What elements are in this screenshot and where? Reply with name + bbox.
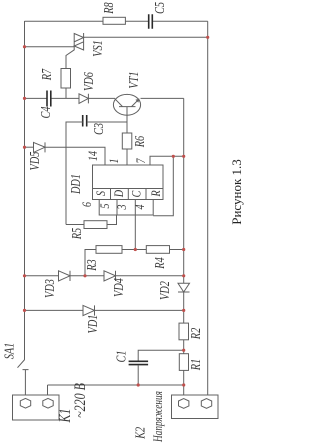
svg-text:C: C (129, 190, 144, 197)
svg-text:R3: R3 (84, 259, 100, 271)
svg-text:Напряжения: Напряжения (152, 391, 165, 443)
svg-text:R1: R1 (188, 359, 204, 371)
wire R1 down (183, 370, 185, 395)
capacitor C3 (83, 115, 87, 127)
resistor R3 (96, 246, 122, 254)
svg-text:C1: C1 (113, 350, 129, 362)
wire left rail (24, 21, 26, 360)
resistor R2 (179, 323, 189, 340)
svg-text:DD1: DD1 (68, 174, 84, 195)
wire VT1 base (126, 115, 128, 133)
capacitor C4 (47, 91, 51, 107)
svg-text:R5: R5 (69, 228, 85, 240)
svg-text:R: R (149, 190, 164, 197)
wire top rail (25, 20, 104, 22)
svg-text:C5: C5 (152, 2, 168, 14)
wire VD4 right (116, 275, 184, 277)
resistor R6 (122, 133, 132, 149)
transistor VT1 (113, 94, 140, 115)
svg-text:R4: R4 (152, 257, 168, 269)
svg-text:VD3: VD3 (42, 279, 58, 298)
wire R4 right (170, 249, 184, 251)
wire R5 left (66, 224, 84, 226)
svg-text:VD4: VD4 (111, 278, 127, 297)
wire VD3 to VD4 (70, 275, 104, 277)
triac VS1 (74, 33, 83, 50)
svg-text:К2: К2 (132, 427, 148, 440)
svg-text:6: 6 (80, 202, 95, 207)
svg-text:3: 3 (115, 204, 130, 210)
svg-text:7: 7 (134, 157, 149, 163)
wire pin7 (150, 156, 184, 165)
wire C3 right (87, 121, 127, 123)
wire VS1 right (84, 36, 208, 38)
switch SA1 (18, 360, 29, 396)
diode VD1 (83, 305, 95, 315)
wire VS1 gate (66, 50, 75, 69)
resistor R5 (84, 221, 107, 229)
svg-text:R8: R8 (101, 2, 117, 14)
connector K2 (172, 395, 219, 419)
svg-text:C3: C3 (91, 123, 107, 135)
wire C1 top (138, 350, 184, 361)
svg-text:5: 5 (98, 203, 113, 208)
wire K1 t2 up (47, 385, 49, 395)
wire R2 to R1 (183, 340, 185, 354)
wire mid rail (183, 98, 185, 283)
svg-text:R6: R6 (132, 136, 148, 148)
wire bottom net (48, 384, 184, 386)
wire pin1 (126, 149, 128, 165)
svg-text:SA1: SA1 (1, 343, 17, 360)
wire right rail (207, 21, 209, 395)
svg-text:~220 В: ~220 В (73, 383, 90, 418)
wire C5 to right rail (153, 20, 208, 22)
wire pinR to pin7 net (153, 156, 173, 216)
wire R8 to C5 (125, 20, 148, 22)
svg-text:4: 4 (133, 204, 148, 209)
resistor R8 (103, 17, 125, 24)
wire R7 to node (65, 88, 67, 98)
diode VD4 (104, 271, 116, 281)
wire VD1 net (25, 309, 84, 311)
wire R3 to R4 (122, 249, 146, 251)
wire C1 down (137, 365, 139, 385)
capacitor C5 (149, 14, 153, 29)
resistor R1 (179, 354, 188, 371)
wire VD5 net (25, 146, 34, 148)
svg-text:S: S (94, 191, 109, 196)
diode VD2 (178, 283, 190, 292)
svg-text:Рисунок 1.3: Рисунок 1.3 (229, 159, 244, 225)
capacitor C1 (129, 361, 149, 364)
svg-text:VD1: VD1 (85, 315, 101, 334)
svg-text:1: 1 (107, 159, 122, 164)
svg-text:VD6: VD6 (81, 72, 97, 91)
wire VD6 to VT1 (88, 97, 115, 99)
wire VD2 down (183, 292, 185, 323)
wire VD3 net (25, 275, 59, 277)
wire C4 to VD6 (52, 97, 80, 99)
svg-text:D: D (112, 189, 127, 198)
resistor R4 (146, 246, 169, 254)
wire gate net (25, 97, 47, 99)
wire pin5 to R5 (107, 215, 117, 225)
wire VD1 right (95, 309, 184, 311)
svg-text:VD2: VD2 (157, 281, 173, 300)
diode VD3 (59, 271, 71, 281)
connector K1 (13, 395, 60, 420)
diode VD5 (34, 142, 46, 152)
svg-text:R2: R2 (188, 328, 204, 340)
chip DD1 (93, 165, 164, 215)
wire VT1 emitter to rail (141, 97, 184, 99)
wire R3 left (85, 250, 96, 276)
resistor R7 (61, 69, 71, 89)
wire VS1 left (25, 46, 75, 48)
svg-text:VS1: VS1 (90, 40, 106, 57)
svg-text:VT1: VT1 (126, 71, 142, 88)
svg-text:VD5: VD5 (27, 152, 43, 171)
svg-text:C4: C4 (38, 106, 54, 118)
wire pin4 down (134, 215, 136, 250)
svg-text:R7: R7 (39, 68, 55, 81)
diode VD6 (79, 94, 88, 104)
wire VD5 to pin14 (45, 147, 105, 165)
svg-text:14: 14 (86, 151, 101, 161)
wire C3 left (66, 122, 83, 225)
